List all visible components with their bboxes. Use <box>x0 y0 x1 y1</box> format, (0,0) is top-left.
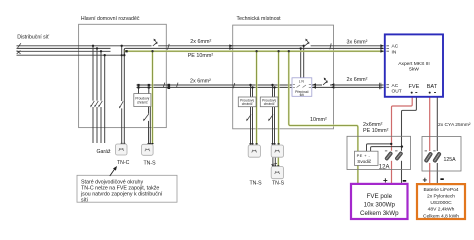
wire PE green main run <box>125 51 384 184</box>
arrowheads AC IN <box>380 44 384 47</box>
svg-text:AC: AC <box>392 44 399 50</box>
fuse F2 12A <box>395 151 403 161</box>
node PE start <box>125 50 127 52</box>
svg-text:síti: síti <box>81 197 88 203</box>
svg-text:10x 300Wp: 10x 300Wp <box>364 201 396 208</box>
junction dots distribution <box>92 45 403 148</box>
wire bus N y=87.4 <box>137 86 384 88</box>
note arrow <box>110 169 115 176</box>
svg-text:2x Pylontech: 2x Pylontech <box>427 194 455 200</box>
node PE dots tech <box>255 50 257 52</box>
svg-text:Distribuční síť: Distribuční síť <box>17 34 49 40</box>
svg-text:TN-C: TN-C <box>117 160 130 166</box>
wire garage drop L1 <box>92 46 94 143</box>
wire slashes <box>17 43 332 165</box>
svg-text:chránič: chránič <box>242 102 253 106</box>
wire prepinac L drop <box>303 46 305 78</box>
inverter U1 Axpert <box>385 34 443 96</box>
svg-text:PE 10mm²: PE 10mm² <box>363 128 389 134</box>
svg-text:sítí: sítí <box>300 93 305 97</box>
box Technická místnost <box>233 25 334 129</box>
node prepinac taps <box>300 47 302 49</box>
fuse F4 125A <box>432 152 441 163</box>
svg-text:jsou natvrdo zapojeny k distri: jsou natvrdo zapojeny k distribuční <box>80 192 163 198</box>
wire PE drop tech socket1 <box>256 51 258 145</box>
svodič outer box <box>347 136 411 169</box>
node bus dots tech <box>249 84 251 86</box>
svg-text:+: + <box>383 176 388 185</box>
RCD tech 2 <box>260 97 278 107</box>
socket tech 2 <box>271 145 283 157</box>
wire socket chain <box>273 157 275 166</box>
svg-text:2x 6mm²: 2x 6mm² <box>190 79 211 85</box>
FVE pole box <box>351 184 408 219</box>
arrowheads into prepinac <box>312 83 316 86</box>
RCD tech 1 <box>238 97 256 107</box>
arrowheads into tech box <box>229 44 384 89</box>
wire FVE- black <box>402 97 438 184</box>
node PE main TN-S <box>151 50 153 52</box>
wire BAT+ red <box>429 97 431 151</box>
svg-text:chránič: chránič <box>137 100 148 104</box>
svg-text:PE 10mm²: PE 10mm² <box>188 53 214 59</box>
svodič inner box <box>355 151 379 165</box>
přepínač sítí box <box>292 78 312 97</box>
battery fuse box <box>422 137 461 172</box>
wire bus L y=85 <box>137 84 384 86</box>
wire svodič tap from - <box>371 147 402 152</box>
breaker main (on L, in rozvaděč) <box>153 39 158 46</box>
svg-text:TN-S: TN-S <box>144 160 157 166</box>
svg-text:125A: 125A <box>444 157 457 163</box>
terminal ticks AC OUT <box>380 83 381 87</box>
svg-text:US2000C: US2000C <box>430 200 452 206</box>
svg-text:FVE pole: FVE pole <box>367 193 393 200</box>
breaker AC OUT line <box>323 78 328 85</box>
wire FVE+ red <box>392 97 430 184</box>
RCD main box <box>134 94 151 107</box>
wire PE riser to bottom bus <box>289 51 358 184</box>
socket TN-C <box>116 144 128 155</box>
arrowheads AC OUT into tech room <box>331 83 335 86</box>
svg-text:10mm²: 10mm² <box>310 117 327 123</box>
svg-text:+: + <box>423 175 428 184</box>
svg-text:AC: AC <box>392 83 399 89</box>
socket TN-S main <box>142 144 154 155</box>
wire BAT- black <box>436 97 438 151</box>
svg-text:48V 2,4kWh: 48V 2,4kWh <box>428 207 455 213</box>
wire PE drop tech socket2 <box>278 51 280 145</box>
wire TN-C L drop <box>121 46 123 144</box>
socket tech 2b <box>271 167 283 179</box>
wire TN-S main L <box>148 107 150 145</box>
svg-text:12A: 12A <box>379 165 390 171</box>
node svodič taps <box>390 143 392 145</box>
wire PE drop main TN-S <box>152 51 154 144</box>
node TN-C taps <box>121 45 123 47</box>
wire PEN line y=55.2 <box>17 54 124 56</box>
wire L3 line y=51.3 <box>17 50 111 52</box>
svg-text:BAT: BAT <box>427 84 438 90</box>
battery box <box>417 184 465 219</box>
socket tech 1 <box>248 145 260 157</box>
svg-text:TN-S: TN-S <box>272 181 285 187</box>
wire garage drop L3 <box>100 51 102 143</box>
wire RCD2 tech feed <box>273 85 275 145</box>
svg-text:2x 6mm²: 2x 6mm² <box>190 39 211 45</box>
svg-text:2x CYA 25mm²: 2x CYA 25mm² <box>438 122 471 128</box>
svg-text:Celkem 4,8 kWh: Celkem 4,8 kWh <box>423 213 459 219</box>
svg-text:PE + -: PE + - <box>357 153 371 158</box>
fuse F1 12A <box>384 151 392 161</box>
box Hlavní domovní rozvaděč <box>79 24 167 127</box>
wire garage drop L2 <box>96 48 98 143</box>
wire N line distribution y=48.4 <box>17 47 384 49</box>
svg-text:TN-C nelze na FVE zapojit, tak: TN-C nelze na FVE zapojit, takže <box>81 186 159 192</box>
svg-text:chránič: chránič <box>264 102 275 106</box>
svg-text:Axpert MKS III: Axpert MKS III <box>398 61 430 67</box>
node bus dots main <box>137 84 139 86</box>
svg-text:OUT: OUT <box>392 89 402 95</box>
fuse F3 125A <box>424 152 433 163</box>
svg-text:3x 6mm²: 3x 6mm² <box>347 39 368 45</box>
wire TN-C N drop <box>123 49 125 144</box>
svg-text:Technická místnost: Technická místnost <box>237 16 282 22</box>
wire svodič tap from + <box>367 144 392 152</box>
svg-text:L N: L N <box>299 79 305 83</box>
svg-text:2x 6mm²: 2x 6mm² <box>347 77 368 83</box>
breaker 3-pole garage <box>90 101 102 108</box>
svg-text:Staré dvojvodičové okruhy: Staré dvojvodičové okruhy <box>81 179 143 185</box>
breaker TN-S main <box>143 114 149 121</box>
wire RCD main feed <box>139 85 149 94</box>
svg-text:IN: IN <box>392 50 397 56</box>
svg-text:5kW: 5kW <box>409 67 419 73</box>
wire RCD1 tech feed <box>251 85 253 145</box>
wire PE socket chain <box>277 157 279 166</box>
svg-text:FVE: FVE <box>409 84 420 90</box>
breaker tech RCD2 <box>268 115 273 122</box>
breaker tech RCD1 <box>246 115 251 122</box>
wire garage drop PEN <box>104 55 106 143</box>
svg-text:Celkem 3kWp: Celkem 3kWp <box>360 210 399 217</box>
wire PEN riser to N <box>124 48 125 55</box>
breaker tech (on L) <box>305 39 310 46</box>
terminals FVE/BAT <box>411 92 436 94</box>
svg-text:Garáž: Garáž <box>97 149 112 155</box>
socket terminal ticks <box>121 143 280 165</box>
wire TN-S main N <box>149 107 151 145</box>
breaker TN-C <box>119 101 123 108</box>
wire prepinac N drop <box>300 48 302 77</box>
note box <box>77 175 177 202</box>
svg-text:Svodič: Svodič <box>357 159 372 164</box>
svg-text:Hlavní domovní rozvaděč: Hlavní domovní rozvaděč <box>81 16 140 22</box>
svg-text:TN-S: TN-S <box>250 181 263 187</box>
wire L line distribution y=45.8 <box>17 46 384 167</box>
svg-text:Baterie LiFePo4: Baterie LiFePo4 <box>423 187 458 193</box>
